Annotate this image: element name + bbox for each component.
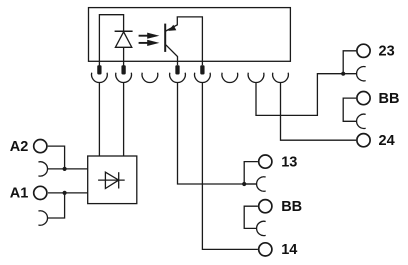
wire 13 bracket <box>244 162 258 184</box>
contact BB upper <box>357 114 366 128</box>
LED D1 <box>115 31 133 66</box>
diode V1 <box>98 172 125 188</box>
contact BB lower <box>257 221 266 235</box>
terminal clamp 6 <box>222 73 238 83</box>
contact A2 <box>38 162 47 176</box>
terminal circle A2 <box>34 140 47 153</box>
svg-text:13: 13 <box>281 154 297 170</box>
terminal clamp 5 <box>195 73 211 83</box>
rectifier box <box>88 156 137 204</box>
plug terminal 1 <box>97 65 101 74</box>
wire 23 bracket <box>343 51 356 74</box>
wire terminal 8 to node 24 <box>281 82 357 140</box>
junction 23 <box>341 72 345 76</box>
terminal clamp 7 <box>248 73 264 83</box>
wire terminal 2 to rectifier box <box>123 82 125 156</box>
junction A2 <box>63 167 67 171</box>
wire BB upper bracket <box>343 98 356 121</box>
plug terminal 4 <box>175 65 179 74</box>
svg-text:24: 24 <box>379 133 395 149</box>
terminal circle BB upper <box>357 92 370 105</box>
terminal circle BB lower <box>259 200 272 213</box>
junction A1 <box>63 191 67 195</box>
module outline box <box>89 8 291 62</box>
wire terminal 7 to node 23 <box>256 74 343 116</box>
terminal clamp 8 <box>273 73 289 83</box>
terminal clamp 2 <box>116 73 132 83</box>
terminal clamp 4 <box>170 73 186 83</box>
wire A2 bracket <box>48 146 65 169</box>
wire A2 to rectifier box <box>65 168 88 170</box>
terminal circle 13 <box>259 155 272 168</box>
junction 13 <box>242 182 246 186</box>
light arrow 1 <box>139 33 160 39</box>
wire terminal 4 to node 13 <box>178 82 257 184</box>
terminal circle 14 <box>259 243 272 256</box>
wire BB lower bracket <box>244 206 258 228</box>
svg-text:A2: A2 <box>10 139 29 155</box>
light arrow 2 <box>139 40 160 46</box>
terminal clamp 3 <box>142 73 158 83</box>
wire: LED cathode loop to terminal 1 <box>99 15 123 66</box>
phototransistor Q1 <box>165 17 202 65</box>
terminal clamp 1 <box>92 73 108 83</box>
svg-text:A1: A1 <box>10 186 29 202</box>
wire terminal 5 to node 14 <box>202 82 258 249</box>
svg-text:BB: BB <box>379 91 400 107</box>
svg-text:23: 23 <box>379 44 395 60</box>
contact 13 <box>257 177 266 191</box>
terminal circle 24 <box>357 134 370 147</box>
plug terminal 5 <box>200 65 204 74</box>
terminal circle A1 <box>34 186 47 199</box>
terminal circle 23 <box>357 44 370 57</box>
contact A1 <box>38 211 47 225</box>
wire terminal 1 to rectifier box <box>98 82 100 156</box>
plug terminal 2 <box>121 65 125 74</box>
contact 23 <box>357 67 366 81</box>
wire A1 bracket <box>48 193 65 218</box>
svg-text:14: 14 <box>281 242 297 258</box>
svg-text:BB: BB <box>281 199 302 215</box>
wire A1 to rectifier box <box>65 192 88 194</box>
